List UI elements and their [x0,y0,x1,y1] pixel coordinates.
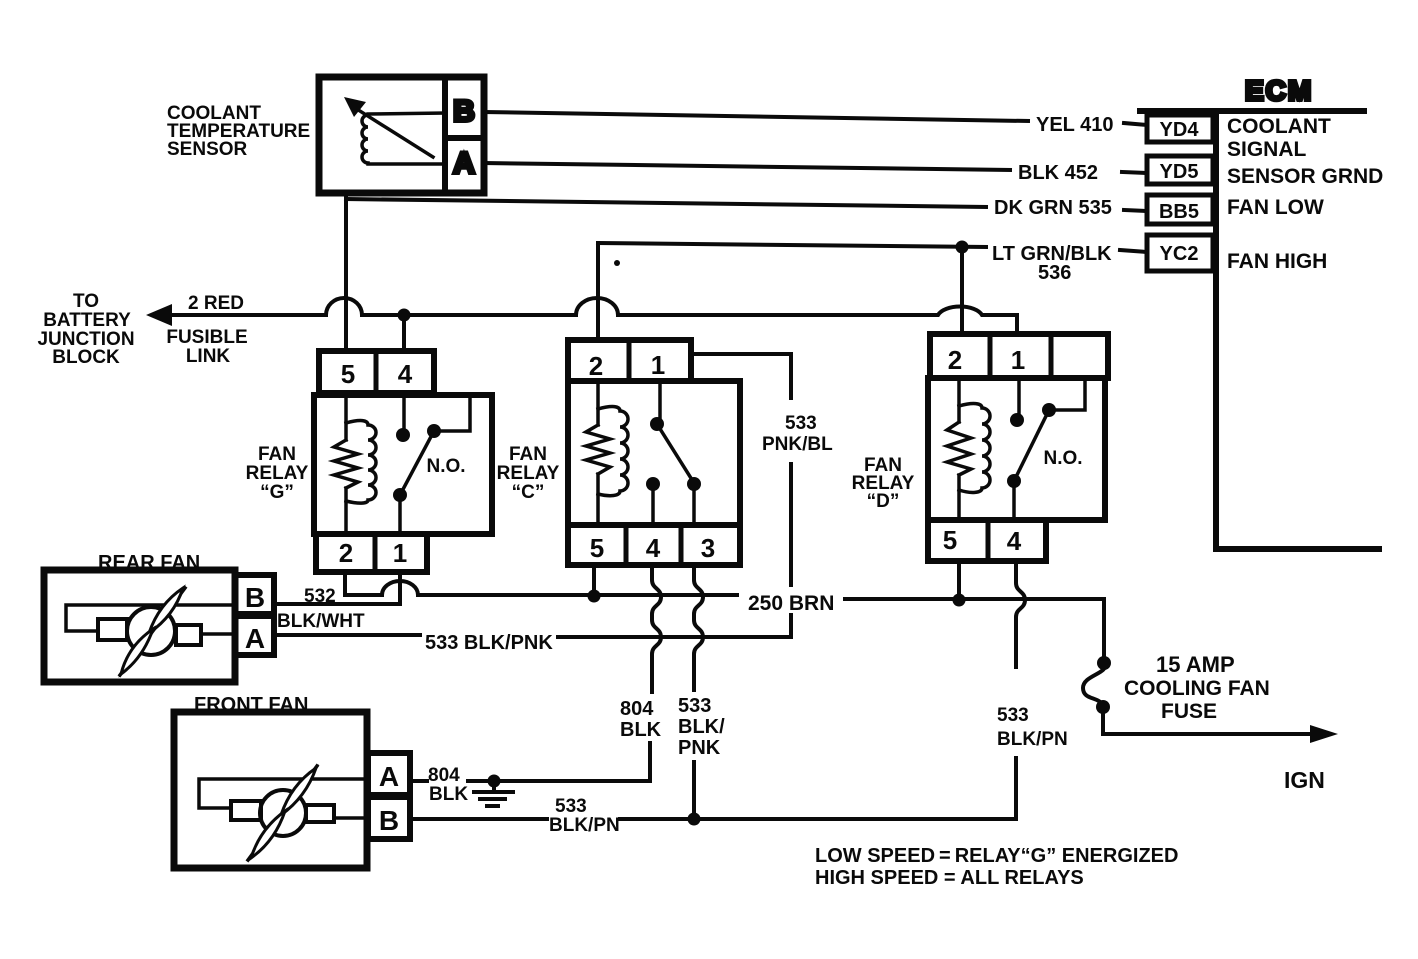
ECM pin function labels [1227,115,1383,273]
svg-text:SIGNAL: SIGNAL [1227,138,1307,161]
svg-text:4: 4 [1007,526,1022,556]
svg-text:YC2: YC2 [1160,243,1199,265]
svg-text:“C”: “C” [512,482,545,503]
svg-text:BLK: BLK [620,719,662,741]
stray dot artifact [614,260,620,266]
relay D switch N.O. [1017,378,1021,420]
wire YEL 410 : sensor B to ECM YD4 [484,112,1028,121]
svg-text:COOLING FAN: COOLING FAN [1124,677,1270,700]
svg-text:BLK/PN: BLK/PN [549,815,620,836]
svg-text:DK GRN 535: DK GRN 535 [994,197,1112,219]
label: coolant temperature sensor [167,103,310,160]
svg-text:804: 804 [428,765,460,786]
svg-text:FUSE: FUSE [1161,700,1217,723]
node: junction 250 BRN / relay D pin 5 [953,594,966,607]
sensor variable-resistor element [362,115,368,163]
svg-text:YD4: YD4 [1160,119,1200,141]
svg-text:FAN LOW: FAN LOW [1227,196,1324,219]
svg-text:B: B [379,805,399,836]
node: junction 2 RED to relay G pin 4 [398,309,411,322]
wire 532 BLK/WHT : relay G pin 1 to rear fan B [274,571,400,604]
ECM pin BB5 [1147,195,1213,224]
svg-text:BLOCK: BLOCK [52,347,120,368]
svg-text:LOW SPEED = RELAY“G” ENERGIZED: LOW SPEED = RELAY“G” ENERGIZED [815,845,1178,867]
svg-text:RELAY: RELAY [246,463,309,484]
svg-text:PNK/BL: PNK/BL [762,434,833,455]
svg-text:FAN HIGH: FAN HIGH [1227,250,1327,273]
svg-text:4: 4 [646,533,661,563]
wire 804 BLK : relay C pin 4 to ground run [652,565,661,692]
svg-text:BLK: BLK [429,784,468,805]
svg-text:N.O.: N.O. [1043,448,1082,469]
svg-text:FAN: FAN [509,444,547,465]
svg-text:A: A [453,147,475,180]
ECM outline [1140,111,1379,549]
svg-text:533 BLK/PNK: 533 BLK/PNK [425,632,553,654]
svg-text:SENSOR GRND: SENSOR GRND [1227,165,1383,188]
svg-text:“G”: “G” [260,482,294,503]
label: fan relay D [852,455,915,512]
svg-text:FRONT FAN: FRONT FAN [194,694,308,716]
svg-text:BB5: BB5 [1159,201,1199,223]
svg-text:250 BRN: 250 BRN [748,592,834,615]
wire 2 RED fusible link : battery feed [146,304,172,326]
label: fan relay C [497,444,560,503]
relay D coil [947,378,971,520]
svg-text:“D”: “D” [867,491,900,512]
fan relay D [928,334,1108,561]
svg-text:LINK: LINK [186,346,231,367]
fuse 15 AMP cooling fan [1097,656,1111,670]
svg-text:B: B [453,95,475,128]
relay C coil [586,381,610,525]
wire 533 BLK/PNK : rear fan A to 533 PNK/BL riser [274,633,420,637]
svg-text:4: 4 [398,359,413,389]
svg-text:PNK: PNK [678,737,721,759]
svg-text:2: 2 [948,345,962,375]
svg-text:TO: TO [73,291,99,312]
wire 533 BLK/PN : front fan B to relay D pin 4 [410,817,547,821]
svg-text:BLK/: BLK/ [678,716,725,738]
svg-text:532: 532 [304,586,336,607]
ECM pin YC2 [1147,235,1213,271]
wire LT GRN/BLK 536 : ECM YC2 to relay C pin 2 and relay D pin 2 [598,243,986,247]
svg-text:YEL 410: YEL 410 [1036,114,1113,136]
svg-text:533: 533 [997,705,1029,726]
node: junction 250 BRN / relay C pin 5 [588,590,601,603]
svg-text:BLK/PN: BLK/PN [997,729,1068,750]
svg-text:533: 533 [678,695,711,717]
relay C switch [658,381,662,424]
svg-text:ECM: ECM [1245,75,1313,106]
wire DK GRN 535 : ECM BB5 to fan relay G pin 5 [346,199,986,207]
svg-text:536: 536 [1038,262,1071,284]
svg-text:2: 2 [339,538,353,568]
relay G coil [334,395,358,534]
svg-text:SENSOR: SENSOR [167,139,248,160]
front fan motor [174,712,410,868]
node: junction on 533 BLK/PN run [688,813,701,826]
svg-text:B: B [245,582,265,613]
svg-text:3: 3 [701,533,715,563]
svg-text:REAR FAN: REAR FAN [98,552,200,574]
svg-text:804: 804 [620,698,654,720]
wire (vertical) sensor area down to relay G pin 5 [344,193,348,351]
wire 533 BLK/PNK : relay C pin 3 down to front fan B run [694,565,703,690]
svg-text:BATTERY: BATTERY [43,310,131,331]
wire 250 BRN : relay G pin2 / relay C pin5 / relay D pin5 to fuse [345,571,737,595]
svg-text:N.O.: N.O. [426,456,465,477]
svg-text:2: 2 [589,351,603,381]
svg-text:A: A [379,761,399,792]
svg-text:5: 5 [590,533,604,563]
ECM pin YD4 [1147,115,1213,142]
svg-text:RELAY: RELAY [497,463,560,484]
label: 2 red fusible link [166,293,247,367]
ECM pin YD5 [1147,156,1213,184]
svg-text:YD5: YD5 [1160,161,1199,183]
label: fan relay G [246,444,309,503]
wire 533 BLK/PN riser to relay D pin 4 [1016,561,1025,667]
coolant temperature sensor [319,77,484,193]
fan relay G [314,351,492,572]
svg-text:533: 533 [555,796,587,817]
wire 533 PNK/BL : relay C pin 1 riser [691,354,791,398]
svg-text:2 RED: 2 RED [188,293,244,314]
svg-text:BLK 452: BLK 452 [1018,162,1098,184]
svg-text:15 AMP: 15 AMP [1156,652,1235,677]
svg-text:HIGH SPEED = ALL RELAYS: HIGH SPEED = ALL RELAYS [815,867,1084,889]
svg-text:1: 1 [1011,345,1025,375]
svg-text:1: 1 [651,350,665,380]
svg-text:1: 1 [393,538,407,568]
svg-text:BLK/WHT: BLK/WHT [277,611,365,632]
svg-text:5: 5 [341,359,355,389]
ground [488,775,501,788]
svg-text:533: 533 [785,413,817,434]
node: junction on 536 [956,241,969,254]
svg-text:IGN: IGN [1284,767,1325,793]
svg-text:5: 5 [943,525,957,555]
rear fan motor [44,570,274,682]
fan relay C [568,340,740,565]
svg-text:FUSIBLE: FUSIBLE [166,327,247,348]
label: to battery junction block [37,291,134,368]
svg-text:COOLANT: COOLANT [1227,115,1331,138]
relay G switch N.O. [402,395,406,435]
wire BLK 452 : sensor A to ECM YD5 [484,163,1010,170]
svg-text:FAN: FAN [258,444,296,465]
svg-text:A: A [245,623,265,654]
